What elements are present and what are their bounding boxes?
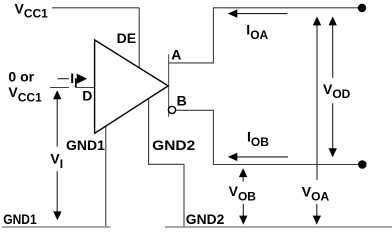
arrowhead V_OA down (313, 216, 321, 225)
wire output bus bar (168, 54, 170, 117)
ground rail GND2 (165, 226, 392, 228)
svg-text:GND1: GND1 (66, 137, 105, 153)
svg-text:B: B (177, 93, 187, 109)
arrowhead V_I up (53, 90, 61, 99)
wire D input (broken under I_I subscript) (50, 87, 94, 89)
wire V_OB upper arrow shaft (242, 176, 244, 182)
arrowhead V_OA up (313, 16, 321, 25)
svg-text:VOA: VOA (302, 184, 330, 204)
wire DE drop to driver top edge (138, 8, 140, 68)
wire net B: bubble to lower rail to dot (176, 110, 360, 164)
junction dot node A (358, 4, 366, 12)
ground rail GND1 (2, 226, 111, 228)
svg-text:VCC1: VCC1 (15, 1, 49, 21)
svg-text:IOB: IOB (247, 129, 269, 150)
svg-text:VCC1: VCC1 (8, 84, 42, 105)
arrowhead V_OB up (239, 168, 247, 177)
op-amp U1 driver triangle (95, 40, 169, 133)
svg-text:VOD: VOD (323, 81, 351, 101)
svg-text:GND2: GND2 (186, 211, 225, 227)
svg-text:VOB: VOB (229, 183, 257, 204)
wire V_OD measure shaft lower (332, 103, 334, 149)
wire I_I arrow shaft (58, 78, 69, 80)
wire V_I measure shaft lower (56, 171, 58, 211)
wire net A: bus to top rail to dot (169, 8, 360, 63)
svg-text:VI: VI (50, 151, 63, 172)
arrowhead I_OB left (228, 153, 238, 161)
svg-text:A: A (171, 47, 181, 63)
arrowhead V_OB down (239, 216, 247, 225)
wire V_I measure shaft upper (56, 99, 58, 147)
svg-text:GND2: GND2 (152, 137, 195, 153)
svg-text:II: II (70, 70, 77, 90)
arrowhead I_I right (77, 74, 87, 84)
svg-text:GND1: GND1 (3, 211, 37, 227)
arrowhead I_OA left (228, 9, 238, 17)
svg-text:DE: DE (117, 30, 136, 46)
wire V_OA measure shaft (316, 25, 318, 181)
svg-text:IOA: IOA (246, 22, 268, 43)
svg-text:D: D (82, 88, 92, 104)
wire GND1 pin drop (105, 127, 107, 227)
wire I_OA arrow shaft (237, 13, 288, 15)
arrowhead V_I down (53, 211, 61, 220)
inverting bubble on B output (168, 106, 175, 113)
wire V_OA lower arrow shaft (316, 204, 318, 217)
wire V_OB lower arrow shaft (242, 204, 244, 217)
wire VCC1 supply to DE (52, 7, 139, 9)
svg-text:0 or: 0 or (8, 69, 34, 85)
junction dot node B (358, 160, 367, 169)
wire V_OD measure shaft upper (332, 25, 334, 78)
arrowhead V_OD up (329, 16, 337, 25)
wire I_OB arrow shaft (237, 156, 288, 158)
wire GND2 pin drop with jog (149, 99, 184, 227)
arrowhead V_OD down (329, 148, 337, 157)
